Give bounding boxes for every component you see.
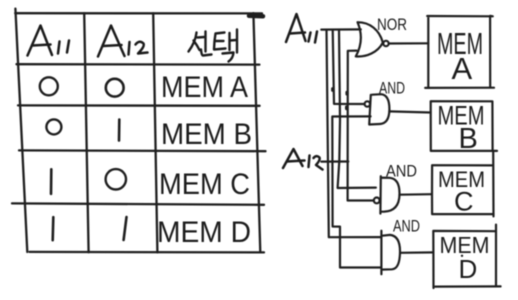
table bottom border [30,251,265,254]
junction dot 1 [331,89,334,91]
box MEM C [432,151,494,217]
NOR output bubble [383,41,388,46]
svg-text:MEM A: MEM A [161,71,248,104]
wire AND D output to MEM D [400,251,433,254]
svg-text:AND: AND [379,79,405,98]
cell 1 row4 col2 [124,217,127,240]
svg-text:MEM B: MEM B [161,118,252,151]
wire bus line L1 (A11 to AND D top) [327,30,382,238]
svg-text:D: D [459,254,478,284]
table row2 bottom line [19,149,266,152]
text MEM A (box) [437,26,483,86]
box MEM A [425,16,494,88]
table column divider 1 [84,13,88,252]
cell 0 row1 col2 [106,79,124,97]
svg-text:B: B [459,123,478,155]
AND C input bubble [374,198,380,204]
wire bus line L3 (A11 to AND C top) [338,30,376,188]
cell 1 row4 col1 [51,217,54,240]
table column divider 2 [153,13,157,252]
svg-text:A: A [452,51,473,86]
cell 0 row2 col1 [46,119,61,134]
box MEM B [431,101,497,151]
wire AND C output to MEM C [399,193,432,196]
AND B input bubble [365,101,370,106]
cell 0 row3 col2 [106,169,126,189]
table top-right corner tick [249,14,263,19]
op AND gate D body [381,231,400,275]
wire A12 horizontal [321,160,348,162]
svg-text:MEM C: MEM C [159,168,250,201]
svg-text:NOR: NOR [377,15,407,34]
wire AND B lower input [332,116,381,267]
table top border [15,12,262,14]
svg-text:C: C [454,187,474,217]
svg-text:AND: AND [393,217,420,236]
text MEM D (box) [440,232,490,284]
text MEM B (box) [438,101,485,156]
table row1 bottom line [18,104,260,107]
table outer left border [15,9,27,252]
table outer right border [253,13,260,252]
wire NOR output to MEM A [389,42,428,44]
header A11 (table) [28,26,70,56]
op AND gate C body [380,176,399,213]
cell 1 row2 col2 [118,120,121,141]
input label A12 [283,149,323,170]
svg-text:AND: AND [386,162,417,181]
box MEM D [433,225,500,288]
junction dot 2 [345,92,348,94]
junction dot 3 [345,107,348,109]
text MEM C (box) [438,167,485,217]
wire bus line L2 upper (A11 to AND B bubble) [333,30,365,104]
cell 0 row1 col1 [40,77,58,95]
cell 1 row3 col1 [50,169,53,194]
wire AND B output to MEM B [389,111,430,112]
wire A11 horizontal [321,28,361,30]
input label A11 [286,14,317,43]
table row3 bottom line [12,203,264,204]
op AND gate B body [369,94,389,124]
wire bus line L4 (A12 up to NOR, down to AND C bubble) [348,51,374,201]
header 선택 (Korean, drawn strokes) [189,30,238,62]
op NOR gate U1 body [356,22,383,56]
header A12 (table) [98,26,148,57]
table header bottom line [17,63,260,66]
svg-text:MEM D: MEM D [157,216,251,249]
